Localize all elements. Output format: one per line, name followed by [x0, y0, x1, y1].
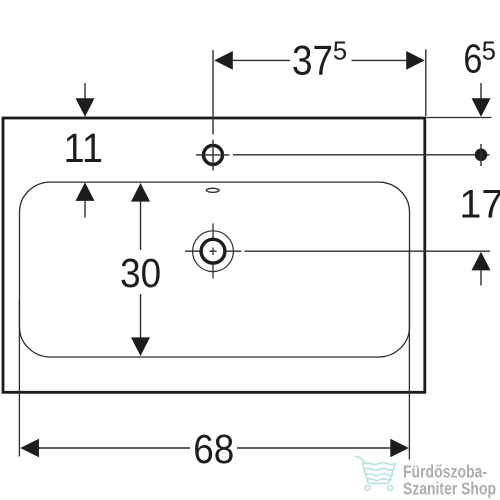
- dim line 68: [38, 447, 391, 449]
- extension line faucet to dim 375: [212, 50, 214, 135]
- arrow 11 up: [76, 182, 95, 201]
- arrow 17 up: [472, 252, 491, 271]
- arrow 30 up: [131, 183, 150, 202]
- drain crosshair: [185, 223, 241, 278]
- svg-text:6: 6: [463, 36, 482, 82]
- dot terminator: [475, 149, 488, 162]
- basin inner bowl: [20, 182, 410, 357]
- faucet crosshair: [196, 140, 230, 171]
- svg-text:17: 17: [459, 182, 500, 226]
- arrow 65 down: [480, 83, 482, 99]
- svg-text:68: 68: [193, 426, 234, 472]
- faucet hole U: [204, 145, 223, 164]
- arrow 30 down: [140, 294, 142, 338]
- arrow 375 right: [406, 51, 425, 70]
- arrow 11 down: [84, 83, 86, 99]
- drain line right: [245, 250, 491, 252]
- svg-text:Szaniter Shop: Szaniter Shop: [403, 479, 496, 499]
- basin outer outline: [3, 118, 425, 392]
- extension line right edge to dim 375: [425, 50, 427, 117]
- svg-text:5: 5: [482, 38, 496, 66]
- dim line 375: [231, 59, 408, 61]
- svg-text:11: 11: [64, 125, 104, 171]
- drain hole: [201, 239, 225, 263]
- watermark cart icon: [356, 457, 396, 491]
- svg-text:5: 5: [333, 38, 347, 66]
- overflow slot: [206, 188, 219, 192]
- extension line 68 left: [18, 300, 20, 457]
- svg-text:37: 37: [292, 37, 333, 84]
- svg-text:30: 30: [120, 250, 161, 296]
- faucet line to dot: [233, 154, 490, 156]
- top edge extension right: [427, 117, 492, 119]
- extension line 68 right: [408, 250, 410, 460]
- arrow 375 left: [214, 51, 233, 70]
- arrow 68 right: [390, 439, 409, 458]
- arrow 68 left: [20, 439, 39, 458]
- drain outline circle: [193, 231, 234, 272]
